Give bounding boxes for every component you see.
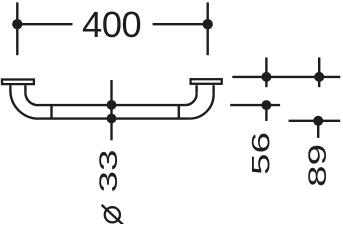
svg-text:89: 89	[303, 144, 331, 187]
svg-text:400: 400	[82, 4, 141, 45]
svg-text:56: 56	[246, 132, 274, 175]
svg-text:33: 33	[94, 149, 122, 192]
